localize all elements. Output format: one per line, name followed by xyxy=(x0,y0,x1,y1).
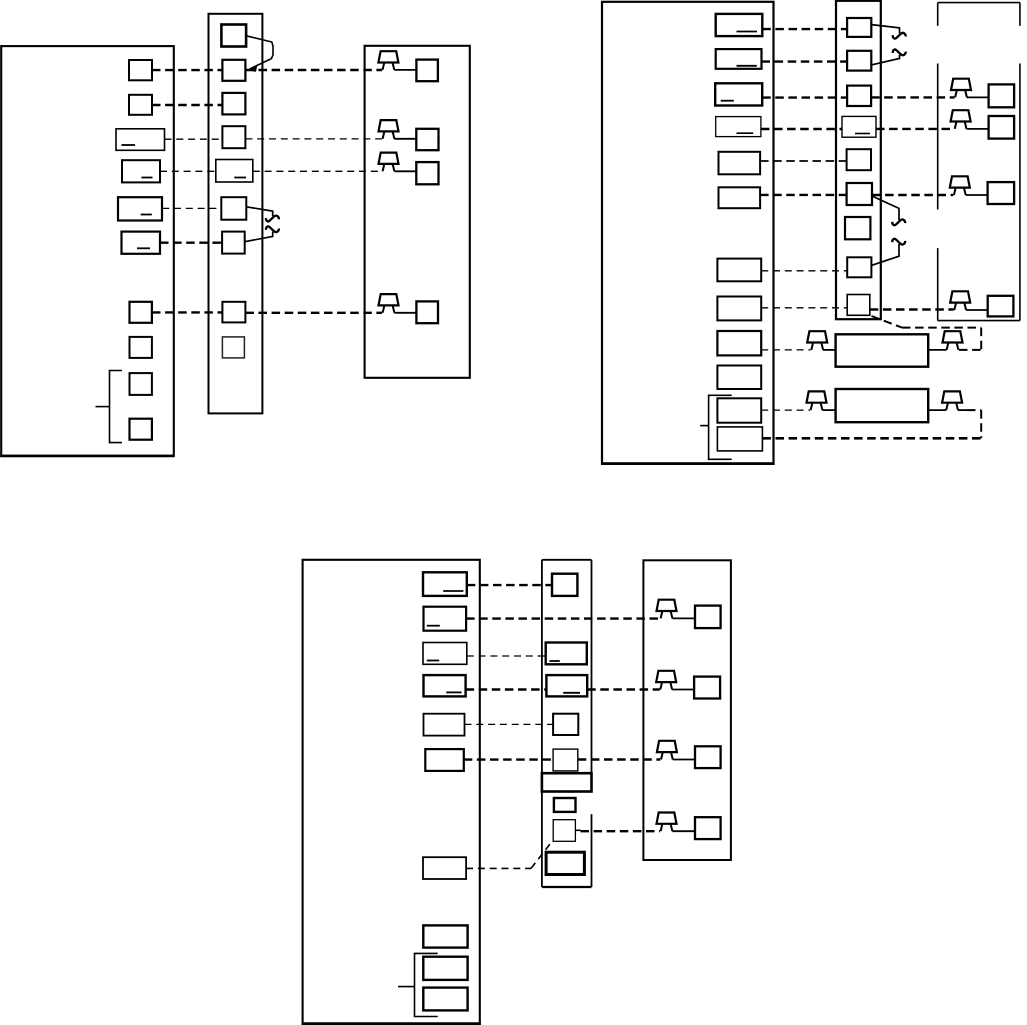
connector box m4 xyxy=(842,116,876,137)
lamp terminal square S2 xyxy=(416,129,438,150)
dashed wire row R9 (B9 to L1) xyxy=(761,349,811,351)
wire W4 to square xyxy=(672,830,695,832)
dashed wire b7 diagonal xyxy=(531,841,553,869)
terminal box B3 xyxy=(715,83,762,105)
connector box m6 xyxy=(847,183,872,205)
label line in A3 xyxy=(122,144,136,146)
dashed corner to B12 vertical xyxy=(980,410,982,438)
terminal box b3 xyxy=(423,643,467,665)
terminal box b7 xyxy=(423,857,466,879)
lamp terminal square S1 xyxy=(416,60,438,82)
lamp symbol L2-right xyxy=(942,391,962,410)
bottom edge overdraw (top-right unit) xyxy=(601,462,775,465)
terminal box A6 xyxy=(122,232,161,254)
lamp symbol QD xyxy=(950,291,970,310)
terminal box B10 xyxy=(717,366,761,390)
connector box m3 xyxy=(847,86,871,106)
lamp symbol QB xyxy=(951,110,971,129)
connector box M3 xyxy=(222,126,245,148)
break squiggle (m8 wire) xyxy=(892,239,905,245)
lamp symbol W1 xyxy=(657,600,677,619)
terminal box b10 xyxy=(423,988,467,1011)
dashed wire row R4 left xyxy=(761,128,842,130)
lamp terminal square V4 xyxy=(695,817,721,839)
wire m6 to break xyxy=(872,196,899,220)
connector box mm8 xyxy=(553,820,575,842)
label line in A5 xyxy=(141,214,152,216)
lamp terminal square V2 xyxy=(694,677,720,699)
terminal box A7 xyxy=(130,302,152,323)
connector box M4 xyxy=(216,160,253,183)
dashed wire row1 left xyxy=(152,69,222,71)
dashed wire row Q1 xyxy=(467,584,552,586)
lamp panel bottom edge xyxy=(938,320,1020,322)
terminal box B11 xyxy=(717,398,761,422)
terminal box B7 xyxy=(717,259,761,282)
connector box M5 xyxy=(221,197,246,220)
label line in M4 xyxy=(234,177,246,179)
bottom connector strip right edge seg1 xyxy=(591,560,593,773)
label line in B2 xyxy=(737,65,757,67)
arrowhead at M1 xyxy=(246,64,257,71)
bottom connector strip bottom edge xyxy=(542,886,592,888)
wire M5 to break xyxy=(246,207,272,216)
connector box M6 xyxy=(222,232,245,254)
wire L1-left to module xyxy=(823,349,836,351)
lamp panel right edge seg2 xyxy=(1019,64,1021,321)
bottom connector strip left edge xyxy=(541,560,543,887)
wire M6 to break xyxy=(245,232,273,242)
wire QD to square xyxy=(966,309,988,311)
lamp terminal square TA xyxy=(989,84,1015,107)
label line in mm4 xyxy=(563,692,580,694)
terminal box b4 xyxy=(424,675,466,696)
connector box mm1 xyxy=(552,574,577,596)
enclosure: top-left lamp panel xyxy=(365,46,470,378)
lamp symbol QC xyxy=(950,176,970,195)
dashed wire row4 left xyxy=(160,170,216,172)
lamp symbol QA xyxy=(951,79,971,98)
connector box m7 xyxy=(845,217,870,239)
wire W1 to square xyxy=(672,617,695,619)
bracket stem wire xyxy=(96,406,110,408)
dashed wire row R4 right xyxy=(876,128,954,130)
wire P1 to square xyxy=(394,69,416,71)
connector box mm4 xyxy=(546,675,587,696)
terminal box A8 xyxy=(130,337,152,358)
label line in m4 xyxy=(855,133,870,135)
lamp panel left edge seg2 xyxy=(937,64,939,210)
lamp symbol W2 xyxy=(656,671,676,690)
dashed wire row Q4 left xyxy=(466,688,547,690)
loopback wire M0 to M1 xyxy=(246,36,273,69)
wire module to L1-right xyxy=(928,349,946,351)
lamp panel left edge seg1 xyxy=(937,3,939,26)
connector box mm9 xyxy=(546,852,584,874)
connector box mm7 xyxy=(554,798,576,812)
bottom connector strip top edge xyxy=(542,559,592,561)
terminal box A9 xyxy=(130,373,152,395)
dashed wire row Q4 right xyxy=(587,688,660,690)
dashed wire row R2 xyxy=(762,60,848,62)
break squiggle (m2 wire) xyxy=(893,50,906,56)
terminal box b1 xyxy=(423,572,467,596)
wire W2 to square xyxy=(672,689,694,691)
wire QA to square xyxy=(967,96,989,98)
terminal box b9 xyxy=(423,957,467,980)
dashed wire row7 left xyxy=(152,311,222,313)
terminal box A10 xyxy=(130,419,152,440)
wire break to m8 xyxy=(871,244,899,265)
dashed wire row R3 right xyxy=(871,96,954,98)
bottom edge overdraw (bottom unit) xyxy=(302,1022,481,1025)
dashed wire row R11 (B11 to L2) xyxy=(761,409,810,411)
terminal box B2 xyxy=(716,49,762,69)
lamp symbol L1-right xyxy=(943,331,963,350)
break squiggle (m6 wire) xyxy=(892,219,905,225)
dashed wire row7 right xyxy=(245,312,382,314)
lamp terminal square V3 xyxy=(695,746,721,768)
dashed wire row1 right xyxy=(245,69,382,71)
lamp symbol P2 xyxy=(379,120,399,139)
dashed wire row R5 xyxy=(760,160,847,162)
lamp symbol W3 xyxy=(657,741,677,760)
terminal box b5 xyxy=(424,714,465,736)
connector box M2 xyxy=(222,93,245,115)
label line in mm3 xyxy=(550,660,560,662)
lamp symbol L1-left xyxy=(807,331,827,350)
break squiggle lower (M6 wire) xyxy=(266,226,279,232)
wire P2 to square xyxy=(394,138,416,140)
terminal box B5 xyxy=(719,152,761,175)
wire mm8 stub xyxy=(575,829,580,831)
dashed wire row R3 left xyxy=(762,96,847,98)
connector box m1 xyxy=(847,18,871,37)
dashed wire row3 right xyxy=(245,138,382,140)
dashed wire row Q2 xyxy=(466,617,660,619)
lamp symbol P4 xyxy=(379,294,399,313)
label line in b2 xyxy=(427,625,440,627)
dashed corner to L1-right vertical xyxy=(980,328,982,350)
grouping bracket (A9,A10) xyxy=(110,371,123,443)
connector box mm6 xyxy=(553,749,578,771)
dashed wire row6 xyxy=(160,241,222,243)
label line in A4 xyxy=(141,177,152,179)
lamp symbol P3 xyxy=(379,153,399,172)
dashed wire row R1 xyxy=(762,28,847,30)
dashed wire row Q6 right xyxy=(578,758,661,760)
terminal box A4 xyxy=(122,160,160,182)
wire W3 to square xyxy=(673,759,695,761)
wire L2-right stub xyxy=(958,409,967,411)
wire P4 to square xyxy=(394,312,416,314)
enclosure: top-right connector strip xyxy=(836,1,881,319)
dashed corner to L2-right horizontal xyxy=(967,409,981,411)
terminal box B9 xyxy=(717,331,761,355)
terminal box B4 xyxy=(716,117,761,137)
dashed wire m9 branch diagonal xyxy=(872,316,903,328)
enclosure: bottom control unit xyxy=(303,560,480,1024)
terminal box A3 xyxy=(116,129,165,151)
dashed wire row3 left xyxy=(165,138,223,140)
lamp terminal square TD xyxy=(988,296,1014,317)
label line in A6 xyxy=(137,247,150,249)
lamp panel top edge xyxy=(938,2,1020,4)
lamp symbol L2-left xyxy=(807,391,827,410)
label line in B3 xyxy=(721,100,734,102)
wire module to L2-right xyxy=(928,409,946,411)
dashed wire b7 feed xyxy=(466,867,531,869)
connector box M8 xyxy=(222,337,244,358)
dashed wire m9 branch horizontal xyxy=(902,327,981,329)
dashed wire row R8 xyxy=(761,307,847,309)
dashed wire row2 xyxy=(152,104,222,106)
terminal box b6 xyxy=(425,749,464,771)
terminal box A2 xyxy=(129,95,152,115)
dashed wire row Q3 xyxy=(467,655,546,657)
break squiggle (m1 wire) xyxy=(893,33,906,39)
bottom connector strip right edge seg2 xyxy=(591,814,593,887)
connector box m8 xyxy=(847,257,871,277)
lamp symbol P1 xyxy=(378,51,398,70)
terminal box B8 xyxy=(717,297,761,321)
dashed wire row R6 left xyxy=(760,194,847,196)
bracket stem wire 2 xyxy=(700,425,708,427)
terminal box B12 xyxy=(717,427,762,451)
terminal box A5 xyxy=(118,197,162,220)
terminal box B6 xyxy=(719,187,761,208)
dashed wire row5 xyxy=(162,207,221,209)
connector box mm3 xyxy=(546,643,587,665)
label line in B4 xyxy=(737,132,754,134)
enclosure: top-left control unit xyxy=(1,46,174,456)
lamp terminal square S3 xyxy=(416,162,438,184)
wire m2 to break xyxy=(871,55,899,65)
dashed wire row R6 right xyxy=(872,194,953,196)
connector box m2 xyxy=(847,51,871,71)
terminal box b8 xyxy=(423,925,467,947)
dashed wire mm8 to lamp xyxy=(581,830,661,832)
dashed wire m9 to lamp LD xyxy=(870,308,954,310)
bracket stem wire 3 xyxy=(398,986,415,988)
enclosure: top-right control unit xyxy=(602,2,774,464)
break squiggle upper (M5 wire) xyxy=(266,216,279,222)
dashed corner to L1-right horizontal xyxy=(959,349,981,351)
terminal box A1 xyxy=(129,60,152,80)
terminal box b2 xyxy=(424,607,467,631)
bottom edge overdraw (top-left unit) xyxy=(0,455,174,458)
label line in b1 xyxy=(443,590,463,592)
terminal box B1 xyxy=(716,14,763,36)
connector box M7 xyxy=(222,302,245,323)
connector box M0 xyxy=(221,25,246,47)
wire m1 to break xyxy=(871,25,899,34)
label line in b3 xyxy=(427,660,439,662)
separator band block xyxy=(542,773,592,791)
lamp panel right edge seg1 xyxy=(1019,3,1021,26)
grouping bracket (b9,b10) xyxy=(415,953,438,1016)
connector box M1 xyxy=(222,60,245,81)
connector box m5 xyxy=(847,149,871,170)
wire P3 to square xyxy=(394,170,416,172)
bus module L2 xyxy=(836,389,929,422)
wire QB to square xyxy=(967,128,989,130)
dashed wire row Q5 xyxy=(465,723,554,725)
wire L2-left to module xyxy=(822,409,835,411)
dashed wire row4 right xyxy=(253,170,382,172)
dashed wire row R7 xyxy=(761,270,847,272)
dashed wire row R12 (B12 feed) xyxy=(762,437,981,440)
grouping bracket (B11,B12) xyxy=(709,395,732,459)
lamp symbol W4 xyxy=(657,813,677,832)
enclosure: top-left connector strip xyxy=(209,14,263,414)
lamp terminal square V1 xyxy=(695,606,721,629)
label line in b4 xyxy=(446,691,461,693)
bus module L1 xyxy=(836,334,929,366)
dashed wire row Q6 left xyxy=(464,758,553,760)
lamp terminal square TC xyxy=(988,182,1015,204)
lamp terminal square TB xyxy=(989,116,1015,139)
lamp panel left edge seg3 xyxy=(937,248,939,321)
connector box m9 xyxy=(847,295,870,316)
connector box mm5 xyxy=(553,714,578,735)
label line in B1 xyxy=(737,31,758,33)
enclosure: bottom lamp panel xyxy=(643,560,731,860)
wire QC to square xyxy=(966,194,988,196)
lamp terminal square S4 xyxy=(416,301,438,323)
